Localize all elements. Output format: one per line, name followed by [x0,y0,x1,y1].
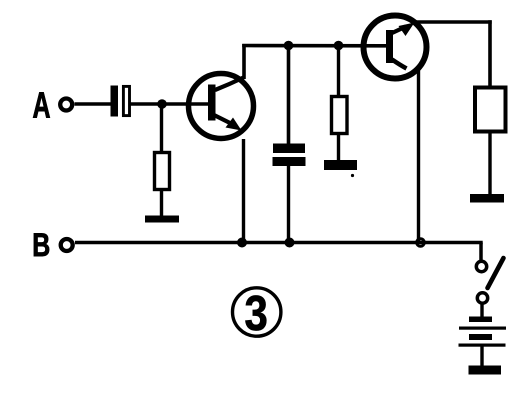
battery BT1 [459,317,507,347]
ground of R2 [324,160,357,170]
resistor R3 [475,88,506,132]
figure number 3 [233,286,281,341]
wire down to R3 [488,20,492,89]
stray dot [351,174,354,177]
capacitor C2 bottom plate [273,157,306,166]
junction Q1 emitter B rail [237,238,247,248]
capacitor C1 right plate [123,86,129,115]
ground of R1 [145,216,179,223]
wire Q2 emitter to top right [412,20,492,24]
resistor R2 [332,97,348,134]
transistor Q1 [189,74,254,139]
svg-text:A: A [33,85,51,126]
wire R3 to ground [488,131,491,195]
capacitor C1 left plate [111,86,119,117]
wire B rail corner down to switch [479,243,483,261]
wire battery to ground [480,346,483,366]
capacitor C2 top plate [273,144,305,154]
wire A to C1 [75,102,111,105]
ground of battery [469,366,502,375]
resistor R1 [155,153,170,190]
wire Q2 collector down to B rail [417,70,420,243]
wire R1 to ground [160,189,163,217]
svg-text:3: 3 [245,286,268,341]
wire C1 to Q1 base [129,102,210,105]
wire top rail to C2 [287,46,291,146]
wire Q1 collector up [242,44,246,79]
wire C2 to B rail [287,166,290,243]
terminal A [60,99,72,111]
junction base node [157,99,167,109]
ground of R3 [470,194,504,203]
wire Q1 emitter down [242,139,245,243]
svg-text:B: B [32,227,50,263]
junction top C2 [284,41,294,51]
transistor Q2 [364,16,427,79]
junction top R2 [334,41,344,51]
wire B rail [75,241,483,245]
terminal B [61,239,73,251]
wire top rail to R2 [337,46,340,98]
wire switch to battery [480,304,483,319]
junction C2 B rail [285,238,295,248]
switch S1 [476,258,503,303]
wire top rail [242,44,387,48]
junction Q2 B rail [417,239,425,247]
wire R2 to ground [337,133,340,161]
wire junction to R1 [160,104,163,153]
